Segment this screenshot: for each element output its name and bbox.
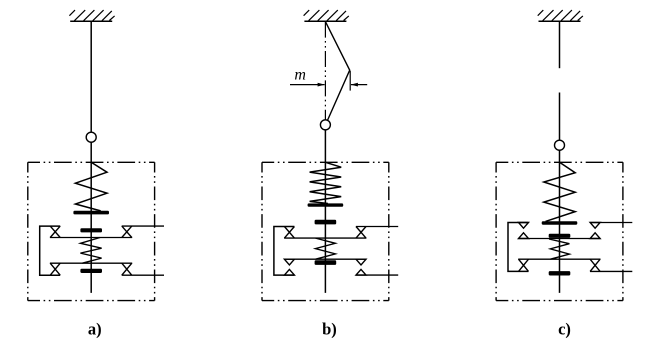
svg-text:b): b) — [322, 319, 337, 338]
right clamp plate A bottom — [122, 274, 164, 276]
offset tick B — [349, 71, 351, 91]
left clamp bracket C — [508, 223, 529, 272]
central rod A — [90, 142, 92, 293]
right clamp plate C bottom — [590, 270, 632, 272]
thick stop bar B1 — [308, 203, 344, 206]
bent lever B — [325, 22, 349, 120]
hinge joint circle B — [320, 120, 330, 130]
open friction pad triangle B bottom-left lower — [284, 269, 294, 275]
thick stop bar A2 — [80, 228, 102, 232]
friction contact X B top-right — [356, 227, 366, 239]
hinge joint circle A — [86, 132, 96, 142]
hinge joint circle C — [555, 140, 565, 150]
friction plate B upper — [284, 237, 366, 239]
arrowhead left B — [318, 83, 325, 87]
suspension rod C lower — [559, 93, 561, 141]
friction plate B lower — [284, 258, 366, 260]
friction plate A lower — [50, 262, 132, 264]
open friction pad triangle C top-right lower — [590, 233, 600, 239]
svg-text:m: m — [294, 67, 306, 84]
dash-dot frame box of unit B — [262, 162, 389, 300]
thick stop bar B3 — [315, 260, 337, 265]
dimension arrow line left B — [290, 84, 325, 86]
svg-text:c): c) — [558, 319, 571, 338]
friction contact X A bottom-right — [122, 263, 132, 275]
thick stop bar B2 — [315, 220, 337, 225]
central rod B — [324, 130, 326, 293]
fixed ceiling support B — [304, 10, 349, 21]
right clamp plate A top — [122, 225, 164, 227]
dash-dot frame box of unit C — [496, 162, 623, 300]
damper spring A — [80, 238, 101, 264]
open friction pad triangle C top-right upper — [590, 223, 600, 229]
main spring C — [544, 162, 575, 221]
friction plate C upper — [518, 238, 600, 240]
friction contact X A top-left — [50, 226, 60, 237]
main spring B — [310, 162, 342, 203]
right clamp plate B top — [356, 226, 398, 228]
thick stop bar A3 — [80, 269, 102, 273]
main spring A — [75, 162, 107, 211]
open friction pad triangle B bottom-left upper — [284, 259, 294, 265]
central rod C — [559, 150, 561, 293]
left clamp bracket A — [40, 226, 61, 275]
vertical centerline B — [324, 22, 326, 120]
thick stop bar C3 — [549, 271, 571, 275]
friction plate C lower — [518, 258, 600, 260]
suspension rod A upper — [90, 22, 92, 133]
friction contact X C bottom-left — [519, 259, 529, 271]
thick stop bar C1 — [542, 221, 578, 224]
arrowhead right B — [351, 83, 358, 87]
friction contact X C bottom-right — [590, 259, 600, 271]
open friction pad triangle C top-left lower — [519, 233, 529, 239]
svg-text:a): a) — [88, 319, 102, 338]
damper spring B — [315, 238, 335, 259]
open friction pad triangle B bottom-right lower — [356, 269, 366, 275]
right clamp plate B bottom — [356, 274, 398, 276]
dimension arrow line right B — [351, 84, 367, 86]
friction plate A upper — [50, 237, 132, 239]
open friction pad triangle B bottom-right upper — [356, 259, 366, 265]
right clamp plate C top — [590, 222, 632, 224]
damper spring C — [549, 239, 569, 259]
left clamp bracket B — [274, 227, 295, 276]
friction contact X B top-left — [284, 227, 294, 239]
friction contact X A bottom-left — [50, 263, 60, 275]
fixed ceiling support A — [69, 10, 114, 21]
open friction pad triangle C top-left upper — [519, 223, 529, 229]
thick stop bar A1 — [73, 211, 109, 215]
fixed ceiling support C — [538, 10, 583, 21]
dash-dot frame box of unit A — [28, 162, 155, 300]
thick stop bar C2 — [549, 234, 571, 238]
friction contact X A top-right — [122, 226, 132, 237]
suspension rod C upper — [559, 22, 561, 68]
